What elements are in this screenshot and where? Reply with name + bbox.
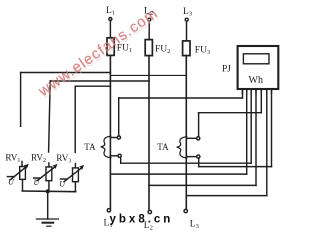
- node L2 bottom terminal: [148, 210, 151, 213]
- svg-text:U: U: [8, 178, 15, 187]
- wire WA TA1-S2 drop: [120, 157, 122, 163]
- wire P2 tap L1 to RV3: [75, 85, 110, 87]
- varistor RV1: [7, 164, 28, 179]
- ground: [36, 219, 58, 226]
- wire RV1 riser upper: [20, 73, 22, 126]
- svg-text:Wh: Wh: [249, 75, 263, 86]
- wire W1 horizontal to meter t1: [119, 97, 243, 99]
- wire RV3 riser: [74, 86, 76, 152]
- node L1 top terminal: [109, 18, 112, 21]
- wire W2 TA2-S1 riser: [198, 113, 200, 137]
- wire ground lead: [47, 191, 49, 219]
- transformer TA1 arcs: [101, 136, 111, 157]
- wire RV1 riser stub: [21, 162, 23, 167]
- wire t2 riser: [246, 89, 248, 174]
- wire W2 horizontal to meter t5: [199, 112, 262, 114]
- svg-text:L3: L3: [183, 7, 192, 17]
- wire TA2 S2 stub: [186, 156, 196, 158]
- wire t4 riser: [255, 89, 257, 185]
- svg-text:L1: L1: [106, 6, 115, 17]
- wire P1 tap L2 to RV2: [50, 80, 149, 82]
- wire L2 phase line upper: [148, 21, 150, 39]
- wire t1 riser: [242, 89, 244, 98]
- wire t7 riser: [271, 89, 273, 167]
- svg-text:ybx8.cn: ybx8.cn: [110, 214, 174, 226]
- svg-text:RV2: RV2: [31, 153, 46, 165]
- wire L2 phase line lower: [148, 56, 150, 211]
- wire W3 horizontal to meter t7: [199, 166, 272, 168]
- meter register window: [243, 54, 269, 64]
- wire t3 riser: [250, 89, 252, 163]
- svg-text:TA: TA: [84, 142, 96, 152]
- node TA2 S2 circle: [197, 155, 200, 158]
- wire RV2 riser: [49, 81, 51, 152]
- wire RV3 bottom: [74, 182, 76, 192]
- node L3 bottom terminal: [184, 209, 187, 212]
- wire W3 TA2-S2 drop: [198, 158, 200, 167]
- wire L1 phase line upper: [109, 20, 111, 37]
- svg-text:FU1: FU1: [117, 44, 132, 55]
- wire RV common bus: [22, 190, 75, 193]
- meter PJ box: [238, 46, 279, 89]
- svg-text:PJ: PJ: [222, 65, 231, 75]
- transformer TA2 arcs: [177, 137, 187, 158]
- wire P0 tap L1 to RV1: [21, 72, 111, 74]
- fuse FU2: [145, 40, 152, 56]
- svg-text:RV1: RV1: [5, 153, 20, 165]
- wire L3 phase line lower: [185, 56, 187, 210]
- wire t5 riser: [260, 89, 262, 113]
- varistor RV3: [60, 165, 83, 181]
- wire L1 phase line lower: [109, 55, 111, 208]
- wire t6 riser: [266, 89, 268, 196]
- wire RV3 riser stub: [74, 164, 76, 168]
- fuse FU3: [183, 41, 190, 56]
- wire TA2 S1 stub: [186, 137, 196, 139]
- varistor RV2: [34, 164, 57, 180]
- wire W5 L2 voltage tap to meter t4: [149, 184, 256, 186]
- svg-text:TA: TA: [157, 142, 169, 152]
- node TA1 S2 circle: [118, 154, 121, 157]
- wire RV1 bottom: [22, 179, 24, 191]
- node L1 bottom terminal: [107, 209, 110, 212]
- node L2 top terminal: [148, 18, 151, 21]
- wire RV2 bottom: [48, 181, 50, 192]
- wire RV2 riser stub: [48, 163, 50, 167]
- node TA2 S1 circle: [197, 137, 200, 140]
- svg-text:L3: L3: [190, 220, 199, 231]
- svg-text:FU3: FU3: [195, 46, 210, 57]
- node bus ground junction: [46, 190, 49, 193]
- meter terminal stubs: [243, 89, 272, 93]
- wire TA1 S1 stub: [110, 137, 117, 139]
- wire W4 L1 voltage tap to meter t2: [110, 173, 246, 175]
- wire TA1 S2 stub: [110, 155, 118, 157]
- wire Q tap L1 to L3: [110, 74, 186, 76]
- fuse FU1: [107, 38, 114, 56]
- svg-text:FU2: FU2: [155, 45, 170, 56]
- wire W6 L3 voltage tap to meter t6: [186, 195, 266, 197]
- wire L3 phase line upper: [186, 21, 188, 41]
- svg-text:RV3: RV3: [56, 153, 71, 165]
- node L3 top terminal: [185, 18, 188, 21]
- node TA1 S1 circle: [117, 136, 120, 139]
- wire WA horizontal to meter t3: [121, 162, 252, 164]
- wire W1 TA1-S1 riser: [118, 98, 120, 136]
